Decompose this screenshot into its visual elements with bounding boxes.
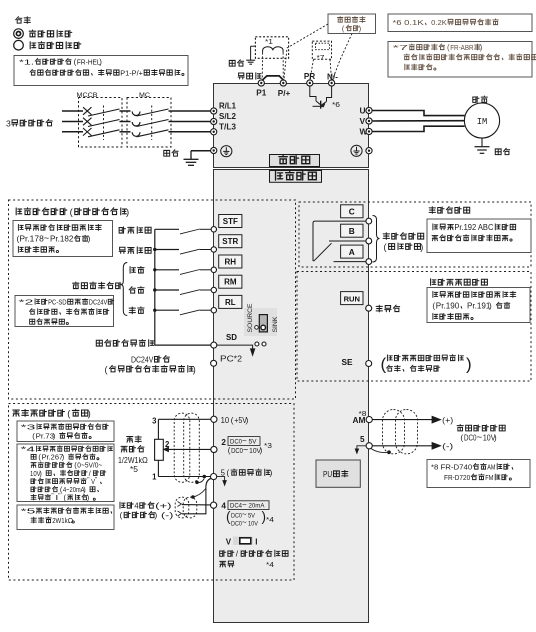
svg-text:Pr.190: Pr.190: [436, 302, 460, 311]
wire resistor to PR dashed: [310, 59, 314, 79]
analog voltage output label: [457, 425, 463, 431]
wire 5 to minus arrow: [372, 445, 433, 447]
svg-text:): ): [489, 302, 492, 311]
svg-text:*5: *5: [130, 465, 139, 474]
terminal B: [366, 238, 372, 244]
switch RH: [155, 269, 179, 271]
brake transistor *6: [320, 101, 322, 109]
junction dot RL: [153, 309, 156, 312]
svg-text:SE: SE: [342, 357, 353, 367]
DC reactor inductor symbol: [263, 47, 284, 53]
svg-text:PC: PC: [220, 354, 234, 364]
ground symbol top: [250, 46, 252, 60]
svg-text:*7: *7: [317, 53, 325, 62]
svg-text:STF: STF: [223, 217, 238, 226]
frequency title: [13, 410, 20, 416]
svg-text:DC24V: DC24V: [131, 355, 154, 365]
junction dot RM: [153, 288, 156, 291]
relay output brace: [373, 216, 380, 263]
wire resistor to N/- dashed: [330, 59, 332, 79]
svg-text:DC0: DC0: [464, 433, 477, 442]
svg-text:": ": [95, 476, 97, 483]
terminal box C: [341, 205, 363, 218]
svg-text:P1-P/+: P1-P/+: [120, 69, 143, 78]
shielded cable lower: [175, 497, 189, 518]
terminal N/-: [329, 80, 335, 86]
brake resistor *7 dashed box: [312, 41, 331, 59]
multi-speed brace: [121, 263, 128, 316]
ground wire left: [191, 150, 211, 152]
svg-text:FR-HEL: FR-HEL: [77, 58, 101, 67]
svg-text:PR: PR: [304, 72, 315, 81]
svg-text:T/L3: T/L3: [219, 121, 236, 131]
terminal P1: [258, 80, 264, 86]
contact input common label: [96, 340, 102, 346]
terminal box RH: [219, 255, 242, 268]
terminal 4 input wires: [120, 502, 125, 508]
multi-speed selection label: [73, 282, 79, 288]
wire AM to plus arrow: [372, 419, 433, 421]
svg-text:DC4: DC4: [230, 503, 242, 510]
brake resistor symbol: [316, 43, 330, 50]
svg-text:~: ~: [477, 432, 483, 443]
wire phase R input: [62, 110, 83, 112]
svg-text:AM: AM: [353, 416, 366, 425]
svg-text:*4: *4: [21, 446, 35, 454]
wire 5 right into block arrow: [357, 446, 366, 450]
svg-text:3: 3: [6, 118, 11, 128]
svg-text:): ): [99, 58, 102, 67]
svg-text:5V: 5V: [249, 439, 258, 446]
wire wiper to terminal 2: [168, 448, 211, 450]
svg-text:A: A: [349, 247, 355, 257]
svg-text:~: ~: [242, 500, 247, 509]
inverter main circuit block: [214, 84, 369, 168]
svg-text:*2: *2: [234, 354, 243, 364]
ground label top: [229, 60, 235, 66]
svg-text:DC0: DC0: [231, 520, 242, 527]
svg-text:Pr.192 ABC: Pr.192 ABC: [454, 223, 493, 232]
svg-text:PU: PU: [323, 469, 332, 479]
MCCB pole T contact X: [83, 128, 92, 136]
wire terminal5 into block arrow: [217, 477, 225, 481]
svg-text:DC0: DC0: [230, 439, 242, 446]
svg-text:(-): (-): [161, 511, 174, 520]
MCCB pole R contact X: [83, 107, 92, 115]
input label 低速: [129, 307, 135, 314]
svg-text:(: (: [460, 432, 463, 442]
wire phase T input: [62, 131, 83, 133]
svg-text:(: (: [342, 24, 345, 33]
svg-text:*8 FR-D740: *8 FR-D740: [431, 463, 472, 472]
wire R to terminal: [169, 110, 211, 112]
wire reactor to P/+ dashed: [282, 53, 284, 80]
control input title: [16, 208, 22, 215]
svg-text:~: ~: [243, 444, 248, 454]
terminal box STF: [219, 215, 242, 228]
svg-text:(: (: [226, 468, 229, 478]
wire V to motor: [372, 120, 465, 122]
terminal C: [366, 218, 372, 224]
control circuit label: [270, 171, 322, 183]
switch STF: [155, 228, 179, 230]
svg-text:): ): [193, 364, 196, 374]
input label 中速: [129, 287, 135, 293]
wire pot1 to terminal 5: [158, 476, 210, 478]
svg-text:(: (: [231, 415, 234, 425]
shield drain AM: [387, 450, 391, 454]
input label 高速: [130, 267, 135, 274]
svg-text:C: C: [349, 207, 355, 217]
svg-text:): ): [154, 510, 157, 520]
main circuit label: [270, 155, 320, 167]
legend sink-type title: [16, 17, 22, 23]
svg-text:Pr.191: Pr.191: [467, 302, 490, 311]
svg-text:FR-D720: FR-D720: [444, 473, 470, 482]
relay output dashed section box: [299, 202, 531, 267]
terminal PC: [211, 360, 217, 366]
svg-text:): ): [359, 24, 362, 33]
note *3 box: [17, 421, 114, 442]
frequency dashed section box: [9, 404, 295, 581]
svg-text:R/L1: R/L1: [219, 101, 236, 111]
pot wiper arrow: [164, 447, 169, 451]
terminal RM: [211, 287, 216, 292]
input label 正转启动: [119, 227, 125, 233]
svg-text:4~20mA: 4~20mA: [63, 486, 85, 494]
svg-text:*1: *1: [265, 37, 273, 46]
note relay function box: [427, 219, 531, 253]
MCCB pole S contact X: [83, 118, 92, 126]
svg-text:RUN: RUN: [344, 294, 360, 303]
terminal PR: [307, 80, 313, 86]
terminal SE: [366, 361, 372, 367]
svg-text:*5: *5: [21, 507, 36, 516]
svg-text:I: I: [255, 537, 257, 546]
wire brake unit to N/- dashed: [333, 34, 353, 80]
terminal 2: [211, 446, 217, 452]
terminal box RUN: [341, 292, 363, 305]
wire W to motor: [372, 126, 465, 131]
svg-text:RL: RL: [225, 298, 236, 307]
input label 反转启动: [119, 247, 125, 253]
terminal AM: [366, 417, 372, 423]
svg-text:*3: *3: [264, 441, 272, 450]
legend main-circuit terminal symbol: [14, 29, 24, 39]
terminal RH: [211, 267, 216, 272]
terminal box STR: [219, 235, 242, 248]
svg-text:V: V: [226, 537, 232, 546]
wire reactor to P1 dashed: [261, 53, 263, 80]
terminal V: [366, 118, 372, 124]
svg-text:0~5V/0~: 0~5V/0~: [77, 462, 102, 470]
svg-text:Pr.267: Pr.267: [42, 454, 64, 462]
DC reactor *1 dashed box: [255, 37, 288, 59]
junction dot on wire1: [203, 475, 207, 479]
wire current input minus: [182, 487, 206, 514]
svg-text:S/L2: S/L2: [219, 111, 236, 121]
wire SD: [155, 344, 211, 346]
svg-text:*3: *3: [21, 423, 36, 432]
svg-text:): ): [480, 43, 483, 52]
motor ground: [481, 138, 483, 146]
source sink slide switch: [259, 315, 267, 332]
svg-text:P/+: P/+: [278, 89, 291, 98]
potentiometer label: [127, 437, 133, 443]
svg-text:SINK: SINK: [272, 316, 279, 332]
brake unit option box: [328, 14, 376, 34]
terminal W: [366, 128, 372, 134]
svg-text:5: 5: [360, 435, 365, 444]
svg-text:AM: AM: [487, 463, 495, 472]
svg-text:STR: STR: [222, 237, 238, 246]
svg-text:(-): (-): [442, 442, 454, 451]
svg-text:": ": [58, 493, 60, 500]
svg-text:N/-: N/-: [327, 73, 338, 82]
wire T to terminal: [169, 131, 211, 133]
terminal A: [366, 259, 372, 265]
terminal box B: [341, 224, 363, 237]
svg-text:*1.: *1.: [19, 58, 34, 67]
svg-text:RH: RH: [225, 257, 237, 266]
wire S to terminal: [169, 121, 211, 123]
wire N/- to transistor: [327, 86, 332, 101]
svg-text:4: 4: [134, 502, 139, 511]
MC linkage dotted line: [151, 106, 153, 141]
svg-text:SOURCE: SOURCE: [247, 303, 254, 333]
terminal ground left: [211, 147, 217, 153]
svg-text:DC24V: DC24V: [89, 298, 108, 307]
terminal 4: [211, 502, 217, 508]
svg-text:IM: IM: [477, 117, 488, 127]
svg-text:": ": [87, 476, 89, 483]
switch RM: [155, 289, 179, 291]
svg-text:(: (: [120, 510, 123, 520]
note collector function box: [427, 288, 530, 323]
open collector title: [431, 279, 436, 286]
note *1 DC reactor box: [14, 56, 188, 86]
terminal 10: [211, 416, 217, 422]
svg-text:V: V: [360, 116, 366, 126]
svg-text:1/2W1k: 1/2W1k: [118, 456, 142, 465]
shielded cable AM: [383, 410, 405, 454]
wire PR to transistor: [310, 86, 316, 101]
short bar between P1 and P/+: [262, 76, 283, 80]
terminal T/L3: [211, 129, 217, 135]
terminal RUN: [366, 305, 372, 311]
MC pole S contact arc: [132, 122, 140, 126]
svg-text:*4: *4: [266, 515, 274, 524]
svg-text:Ω: Ω: [68, 516, 74, 525]
svg-text:RM: RM: [224, 278, 237, 287]
MCCB pole T blade: [88, 130, 120, 137]
svg-text:1: 1: [152, 473, 157, 482]
svg-text:): ): [88, 235, 91, 244]
open collector dashed section box: [297, 272, 531, 382]
ground label left: [164, 150, 170, 156]
svg-text:(: (: [381, 355, 387, 374]
svg-text:U: U: [360, 106, 366, 116]
terminal STR: [211, 247, 216, 252]
MC pole R contact arc: [132, 112, 140, 116]
MC pole S blade: [137, 120, 169, 127]
terminal box A: [341, 245, 363, 258]
switch STR: [155, 249, 179, 251]
svg-text:3: 3: [152, 417, 157, 426]
terminal S/L2: [211, 118, 217, 124]
junction dot RH: [153, 268, 156, 271]
wire pot3 to terminal 10: [158, 418, 210, 420]
wire brake unit to P/+ dashed: [284, 24, 328, 80]
svg-text:FR-ABR: FR-ABR: [450, 43, 474, 52]
MCCB dashed box: [79, 98, 123, 148]
note *7 box: [388, 42, 532, 78]
svg-text:FM: FM: [485, 473, 493, 482]
svg-text:10V: 10V: [248, 520, 259, 527]
svg-text:10: 10: [221, 416, 230, 425]
svg-text:): ): [53, 432, 56, 441]
terminal STF: [211, 227, 216, 232]
short bar label: [238, 73, 244, 79]
svg-text:5V: 5V: [248, 512, 256, 519]
sink jumper circles: [255, 342, 259, 346]
relay output side label: [383, 233, 389, 240]
svg-text:2W1k: 2W1k: [52, 516, 68, 525]
PU interface box: [316, 460, 360, 487]
contact input bus wire: [154, 229, 156, 345]
wire current input plus: [182, 504, 210, 506]
inverter control circuit block: [214, 170, 369, 623]
svg-text:": ": [51, 493, 53, 500]
svg-text:): ): [466, 355, 472, 374]
svg-text:): ): [260, 446, 263, 455]
note *2 box: [15, 296, 114, 327]
terminal box RL: [219, 295, 242, 308]
control input dashed section box: [9, 200, 296, 399]
svg-text:B: B: [349, 226, 355, 236]
wire T between MCCB and MC: [120, 131, 131, 133]
terminal 5: [211, 474, 217, 480]
terminal SD: [211, 342, 217, 348]
note *6 box: [388, 14, 532, 32]
MC pole T contact arc: [132, 132, 140, 136]
shielded cable upper: [174, 413, 190, 482]
svg-text:*6 0.1K: *6 0.1K: [393, 18, 424, 27]
potentiometer: [157, 419, 159, 439]
MC dashed box: [127, 98, 171, 148]
terminal R/L1: [211, 108, 217, 114]
svg-text:): ): [88, 409, 91, 420]
svg-text:2: 2: [221, 438, 226, 447]
terminal ground right: [366, 148, 372, 154]
terminal P/+: [280, 80, 286, 86]
switch RL: [155, 309, 179, 311]
svg-text:): ): [126, 207, 129, 218]
note *4 box: [17, 444, 114, 502]
svg-text:(+): (+): [442, 416, 453, 425]
svg-text:Ω: Ω: [142, 456, 148, 465]
svg-text:DC0: DC0: [231, 512, 242, 519]
svg-text:W: W: [360, 127, 368, 137]
terminal 5 right: [366, 443, 372, 449]
svg-text:*2: *2: [19, 298, 34, 307]
svg-text:~: ~: [242, 518, 247, 527]
svg-text:): ): [494, 432, 497, 442]
V-I switch label: [220, 550, 226, 556]
svg-text:SD: SD: [226, 332, 237, 342]
terminal U: [366, 107, 372, 113]
running label: [376, 305, 382, 312]
note terminal function box: [13, 221, 113, 257]
wire phase S input: [62, 121, 83, 123]
protective earth symbol right: [351, 145, 362, 156]
note *8 box: [427, 460, 530, 488]
svg-text:(: (: [384, 242, 387, 252]
MCCB pole R blade: [88, 109, 120, 116]
legend control-circuit terminal symbol: [14, 40, 24, 50]
wire U to motor: [372, 111, 465, 116]
svg-text:): ): [420, 242, 423, 252]
svg-text:*7: *7: [393, 43, 409, 52]
shield drain lower cable: [191, 495, 195, 499]
wire S between MCCB and MC: [120, 121, 131, 123]
motor IM: [464, 103, 499, 138]
terminal RL: [211, 308, 216, 313]
svg-text:Pr.73: Pr.73: [36, 432, 55, 441]
svg-text:*4: *4: [266, 560, 274, 569]
protective earth symbol left: [221, 146, 232, 157]
svg-text:): ): [270, 468, 273, 478]
svg-text:PC-SD: PC-SD: [48, 298, 67, 307]
wire R between MCCB and MC: [120, 110, 131, 112]
svg-text:0.2K: 0.2K: [431, 18, 447, 27]
terminal box RM: [219, 275, 242, 288]
note *5 box: [17, 505, 114, 530]
svg-text:(Pr.178: (Pr.178: [17, 235, 44, 244]
svg-text:Pr.182: Pr.182: [50, 235, 73, 244]
wire SD to sink jumper with arrow: [217, 345, 253, 349]
shield drain upper cable: [195, 481, 199, 485]
junction dot STR: [153, 248, 156, 251]
svg-text:(+): (+): [155, 502, 172, 511]
svg-text:P1: P1: [256, 89, 266, 98]
svg-text:DC0: DC0: [231, 446, 243, 455]
MC pole T blade: [137, 130, 169, 137]
MCCB pole S blade: [88, 120, 120, 127]
relay contact wires: [313, 221, 366, 261]
MC pole R blade: [137, 109, 169, 116]
svg-text:~: ~: [44, 233, 50, 243]
MCCB linkage dotted line: [103, 106, 105, 141]
relay output title: [429, 207, 435, 214]
svg-text:(: (: [105, 364, 108, 374]
source sink switch panel: [244, 308, 277, 336]
svg-text:*6: *6: [332, 100, 340, 109]
ground symbol left: [190, 151, 192, 159]
svg-text:): ): [246, 415, 249, 425]
